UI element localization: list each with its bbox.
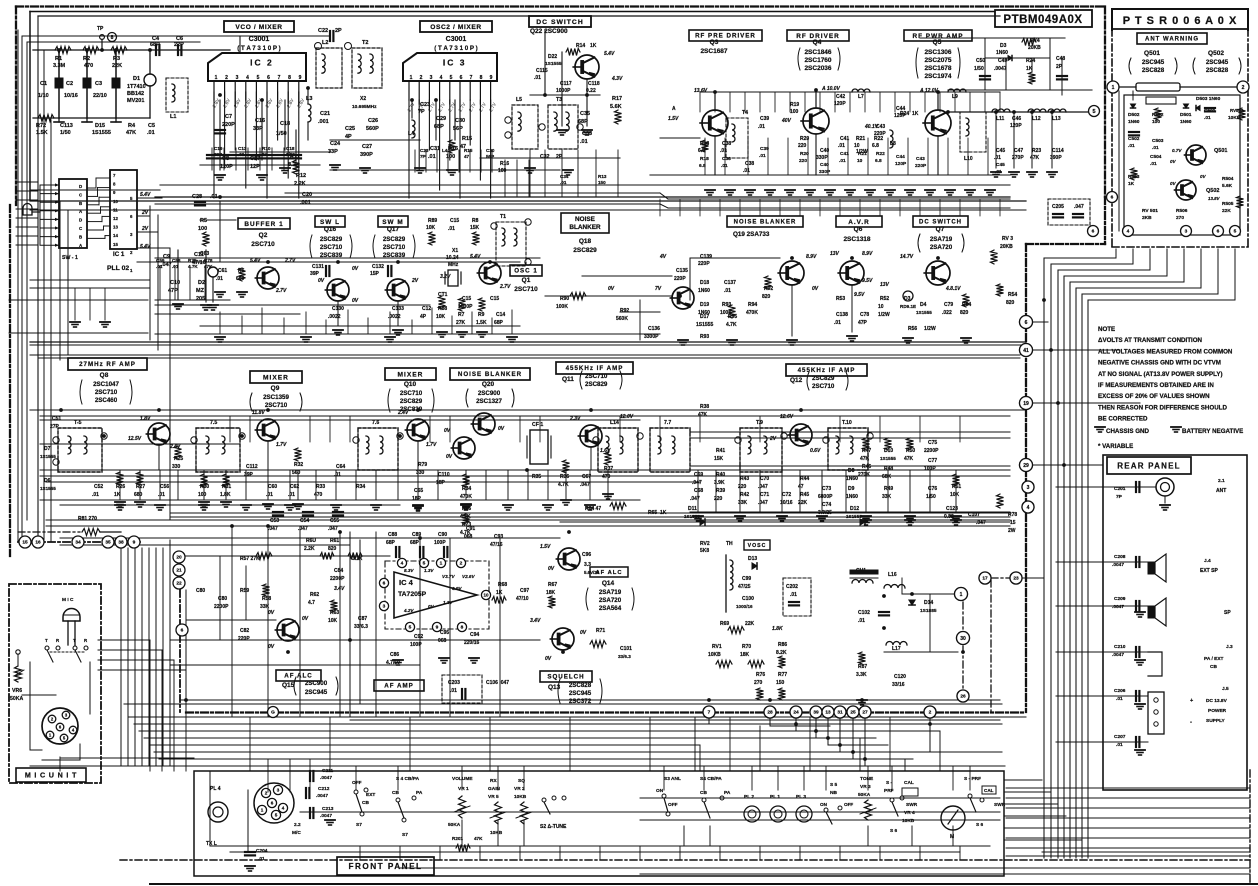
svg-text:C51: C51: [52, 416, 61, 422]
svg-text:2SC1306: 2SC1306: [924, 49, 951, 56]
svg-text:ON: ON: [656, 788, 664, 794]
svg-text:C3001: C3001: [446, 36, 467, 43]
svg-text:0V: 0V: [812, 286, 819, 292]
svg-text:5: 5: [275, 813, 278, 818]
svg-text:0V: 0V: [318, 278, 325, 284]
svg-text:C31: C31: [430, 146, 440, 152]
svg-text:2.7V: 2.7V: [284, 258, 296, 264]
svg-text:0V: 0V: [352, 266, 359, 272]
svg-text:1K: 1K: [590, 43, 597, 49]
svg-text:RV1: RV1: [712, 644, 722, 650]
svg-text:1N60: 1N60: [698, 288, 710, 294]
svg-text:C135: C135: [676, 268, 688, 274]
svg-text:5.4V: 5.4V: [604, 51, 615, 57]
svg-text:0V: 0V: [1170, 159, 1177, 164]
svg-text:T1: T1: [500, 214, 506, 220]
svg-text:C22: C22: [318, 28, 328, 34]
svg-text:.01: .01: [534, 75, 541, 81]
svg-text:C44: C44: [896, 154, 905, 160]
svg-text:R10: R10: [262, 146, 271, 151]
svg-text:1.5K: 1.5K: [476, 320, 487, 326]
svg-text:2V: 2V: [141, 226, 149, 232]
svg-text:C208: C208: [1114, 554, 1126, 560]
svg-text:2SA719: 2SA719: [599, 589, 622, 596]
svg-text:R43: R43: [740, 476, 749, 482]
svg-text:1T7410: 1T7410: [127, 84, 146, 90]
svg-text:CAL: CAL: [984, 788, 994, 793]
svg-text:C502: C502: [1128, 136, 1140, 142]
svg-text:T.10: T.10: [842, 420, 852, 426]
svg-text:4.2V: 4.2V: [403, 608, 414, 613]
svg-text:1.5V: 1.5V: [668, 116, 679, 122]
svg-text:2SC460: 2SC460: [95, 397, 118, 404]
svg-text:18K: 18K: [546, 590, 556, 596]
svg-text:2SC1687: 2SC1687: [700, 48, 727, 55]
svg-text:R33: R33: [316, 484, 325, 490]
svg-text:NEGATIVE CHASSIS GND WITH DC V: NEGATIVE CHASSIS GND WITH DC VTVM: [1098, 360, 1221, 367]
svg-text:560: 560: [292, 470, 301, 476]
svg-text:R32: R32: [294, 462, 303, 468]
svg-text:.01: .01: [450, 688, 457, 694]
svg-text:MIXER: MIXER: [263, 374, 289, 381]
svg-text:.01: .01: [1204, 115, 1211, 121]
svg-text:9: 9: [133, 540, 136, 546]
svg-text:R14: R14: [576, 43, 585, 49]
svg-text:14: 14: [113, 233, 118, 238]
svg-text:2: 2: [929, 710, 932, 716]
svg-text:270: 270: [1176, 215, 1184, 221]
svg-text:VR 3: VR 3: [860, 784, 871, 790]
svg-text:C75: C75: [928, 440, 937, 446]
svg-text:10.695MHz: 10.695MHz: [352, 104, 377, 110]
svg-text:NB: NB: [830, 790, 837, 796]
svg-text:R94: R94: [748, 302, 757, 308]
svg-text:GAIN: GAIN: [488, 786, 501, 792]
svg-text:4.7K: 4.7K: [558, 482, 569, 488]
svg-text:27: 27: [862, 710, 868, 716]
svg-text:3: 3: [236, 75, 239, 81]
svg-text:220P: 220P: [874, 131, 886, 137]
svg-text:C72: C72: [782, 492, 791, 498]
svg-text:C27: C27: [362, 144, 372, 150]
svg-text:22K: 22K: [745, 621, 755, 627]
svg-text:4V: 4V: [659, 254, 667, 260]
svg-text:C101: C101: [620, 646, 632, 652]
svg-text:4.7K: 4.7K: [460, 530, 471, 536]
svg-text:1.7V: 1.7V: [426, 442, 437, 448]
svg-text:6: 6: [383, 581, 386, 587]
svg-text:9: 9: [436, 625, 439, 631]
svg-text:R69: R69: [720, 621, 729, 627]
svg-text:220P: 220P: [238, 636, 250, 642]
svg-text:TH: TH: [726, 541, 733, 547]
svg-text:R65: R65: [648, 510, 657, 516]
svg-text:OFF: OFF: [668, 802, 678, 808]
svg-text:R92: R92: [620, 308, 629, 314]
svg-text:1/2W: 1/2W: [924, 326, 936, 332]
svg-text:56P: 56P: [486, 154, 494, 159]
svg-text:C102: C102: [858, 610, 870, 616]
svg-text:680: 680: [134, 492, 143, 498]
svg-text:270K: 270K: [858, 472, 870, 478]
svg-text:D12: D12: [850, 506, 859, 512]
svg-text:C503: C503: [1152, 138, 1164, 144]
svg-text:.01: .01: [839, 158, 846, 164]
svg-text:5.4V: 5.4V: [250, 258, 261, 264]
svg-text:Q20: Q20: [482, 381, 495, 388]
svg-text:2P: 2P: [335, 28, 342, 34]
svg-text:8: 8: [461, 625, 464, 631]
svg-text:3: 3: [277, 788, 280, 793]
svg-text:C43: C43: [916, 156, 925, 162]
svg-text:4.7: 4.7: [308, 600, 315, 606]
svg-text:22K: 22K: [798, 500, 808, 506]
svg-text:THEN REASON FOR DIFFERENCE SHO: THEN REASON FOR DIFFERENCE SHOULD: [1098, 404, 1227, 411]
svg-text:D14: D14: [924, 600, 933, 606]
svg-text:2SC828: 2SC828: [1142, 67, 1165, 74]
svg-text:470K: 470K: [746, 310, 758, 316]
svg-text:C41: C41: [840, 151, 849, 157]
svg-text:220P: 220P: [222, 122, 235, 128]
svg-text:.047: .047: [758, 484, 768, 490]
svg-text:RX: RX: [490, 778, 497, 784]
svg-text:100: 100: [790, 109, 799, 115]
svg-text:Q12: Q12: [790, 377, 803, 384]
svg-text:10K: 10K: [950, 492, 960, 498]
svg-text:R12: R12: [296, 173, 306, 179]
svg-text:A 10.0V: A 10.0V: [821, 86, 841, 92]
svg-text:100: 100: [446, 154, 455, 160]
svg-text:10KB: 10KB: [514, 794, 527, 800]
svg-text:330: 330: [416, 470, 425, 476]
svg-text:2: 2: [420, 75, 423, 81]
svg-text:15K: 15K: [470, 225, 480, 231]
svg-text:.0022: .0022: [328, 314, 341, 320]
svg-text:.01: .01: [995, 169, 1002, 175]
svg-text:R5: R5: [200, 218, 207, 224]
svg-text:REAR PANEL: REAR PANEL: [1117, 461, 1180, 470]
svg-text:220: 220: [799, 158, 807, 164]
svg-text:C136: C136: [648, 326, 660, 332]
svg-text:16: 16: [35, 540, 41, 546]
svg-text:S4 CB/PA: S4 CB/PA: [700, 776, 722, 782]
svg-text:.01: .01: [288, 492, 295, 498]
svg-text:1N60: 1N60: [1128, 119, 1140, 125]
svg-text:BE CORRECTED: BE CORRECTED: [1098, 416, 1148, 423]
svg-text:11.8V: 11.8V: [252, 410, 265, 416]
svg-text:1: 1: [440, 561, 443, 567]
svg-text:C86: C86: [390, 652, 399, 658]
svg-text:D11: D11: [688, 506, 697, 512]
svg-text:PA / EXT: PA / EXT: [1204, 656, 1224, 662]
svg-text:.01: .01: [266, 492, 273, 498]
svg-text:.01: .01: [448, 226, 455, 232]
svg-text:5: 5: [1092, 109, 1095, 115]
svg-text:4: 4: [401, 561, 404, 567]
svg-text:Q2: Q2: [259, 232, 268, 239]
svg-text:7: 7: [278, 75, 281, 81]
svg-text:1S1555: 1S1555: [880, 456, 896, 461]
svg-text:2: 2: [460, 561, 463, 567]
svg-text:0V: 0V: [268, 644, 275, 650]
svg-text:34: 34: [75, 540, 81, 546]
svg-text:.001: .001: [318, 119, 329, 125]
svg-text:12: 12: [113, 216, 118, 221]
svg-text:VR 4: VR 4: [904, 810, 915, 816]
svg-text:470: 470: [84, 63, 93, 69]
svg-text:2SC710: 2SC710: [265, 402, 288, 409]
svg-text:3.3M: 3.3M: [53, 63, 66, 69]
svg-text:C56: C56: [160, 484, 169, 490]
svg-text:Q16: Q16: [324, 226, 337, 233]
svg-text:CAL: CAL: [904, 780, 914, 786]
svg-text:R68: R68: [498, 582, 507, 588]
svg-text:D2: D2: [198, 280, 205, 286]
svg-text:T-5: T-5: [74, 420, 82, 426]
svg-text:1S1555: 1S1555: [916, 310, 932, 315]
svg-text:RD9.1E: RD9.1E: [900, 304, 916, 309]
svg-text:2SC1318: 2SC1318: [843, 236, 870, 243]
svg-text:J.4: J.4: [1204, 558, 1211, 564]
svg-text:T: T: [73, 638, 76, 643]
svg-text:2SC829: 2SC829: [320, 236, 343, 243]
svg-text:20KB: 20KB: [1000, 244, 1013, 250]
svg-text:6800P: 6800P: [818, 494, 833, 500]
svg-text:820: 820: [1006, 300, 1015, 306]
svg-text:C73: C73: [822, 486, 831, 492]
svg-text:2.1: 2.1: [1218, 478, 1225, 484]
svg-text:PL 1: PL 1: [770, 794, 780, 800]
svg-text:5.4V: 5.4V: [470, 254, 481, 260]
svg-text:100: 100: [1152, 119, 1160, 125]
svg-text:B: B: [79, 234, 82, 239]
svg-text:C100: C100: [742, 596, 754, 602]
svg-text:Q1: Q1: [522, 277, 531, 284]
svg-text:C113: C113: [60, 123, 73, 129]
svg-text:C88: C88: [388, 532, 397, 538]
svg-text:SWR: SWR: [906, 802, 918, 808]
svg-text:30: 30: [960, 636, 966, 642]
svg-text:270: 270: [754, 680, 763, 686]
svg-text:OFF: OFF: [844, 802, 853, 807]
svg-text:2SC710: 2SC710: [320, 244, 343, 251]
svg-text:1.8V: 1.8V: [140, 416, 151, 422]
svg-text:C40: C40: [820, 162, 829, 168]
svg-text:24: 24: [793, 710, 799, 716]
svg-text:220/16: 220/16: [464, 640, 480, 646]
svg-text:33/6.3: 33/6.3: [354, 624, 368, 630]
svg-text:C77: C77: [928, 458, 937, 464]
svg-text:Q9: Q9: [271, 385, 280, 392]
svg-text:R58: R58: [262, 596, 271, 602]
svg-text:M I C: M I C: [62, 597, 74, 603]
svg-text:V2.6V: V2.6V: [462, 574, 475, 579]
svg-text:C23: C23: [420, 148, 429, 153]
svg-text:17: 17: [982, 576, 988, 582]
svg-text:390P: 390P: [360, 152, 373, 158]
svg-text:C58: C58: [172, 258, 181, 263]
svg-text:R23: R23: [1032, 148, 1041, 154]
svg-text:2SC1846: 2SC1846: [804, 49, 831, 56]
svg-text:C48: C48: [1056, 56, 1065, 62]
svg-text:R36: R36: [560, 474, 569, 480]
svg-text:23: 23: [1013, 576, 1019, 582]
svg-text:CB: CB: [392, 790, 399, 796]
svg-text:OSC2 / MIXER: OSC2 / MIXER: [430, 24, 482, 31]
svg-text:R56: R56: [908, 326, 917, 332]
svg-text:C29: C29: [436, 116, 446, 122]
svg-text:0V: 0V: [580, 630, 587, 636]
svg-text:L14: L14: [610, 420, 619, 426]
svg-text:1.5V: 1.5V: [540, 544, 551, 550]
svg-text:2SC828: 2SC828: [1206, 67, 1229, 74]
svg-text:2SC900: 2SC900: [478, 390, 501, 397]
svg-text:AF AMP: AF AMP: [384, 683, 414, 690]
svg-text:1: 1: [410, 75, 413, 81]
svg-text:1/2W: 1/2W: [878, 312, 890, 318]
svg-text:1K: 1K: [262, 152, 269, 157]
svg-text:CF 1: CF 1: [532, 422, 543, 428]
svg-text:.01: .01: [743, 168, 750, 174]
svg-text:3.4V: 3.4V: [530, 618, 541, 624]
svg-text:18P: 18P: [436, 480, 446, 486]
svg-text:1.8K: 1.8K: [220, 492, 231, 498]
svg-text:RV 501: RV 501: [1142, 208, 1158, 214]
svg-text:14.7V: 14.7V: [900, 254, 914, 260]
svg-text:S 4 CB/PA: S 4 CB/PA: [396, 776, 420, 782]
svg-text:1/10: 1/10: [38, 93, 49, 99]
svg-text:SWR: SWR: [994, 802, 1006, 808]
svg-text:7V: 7V: [655, 286, 662, 292]
svg-text:68P: 68P: [150, 42, 160, 48]
svg-text:R35: R35: [532, 474, 541, 480]
svg-text:2SC828: 2SC828: [569, 682, 592, 689]
svg-text:15: 15: [22, 540, 28, 546]
svg-text:22/10: 22/10: [93, 93, 107, 99]
svg-text:6: 6: [1217, 229, 1220, 235]
svg-text:C82: C82: [240, 628, 249, 634]
svg-text:R70: R70: [742, 644, 751, 650]
svg-text:.047: .047: [580, 482, 590, 488]
svg-text:R44: R44: [800, 476, 809, 482]
svg-text:7.7: 7.7: [664, 420, 671, 426]
svg-text:12.0V: 12.0V: [620, 414, 634, 420]
svg-text:2SC829: 2SC829: [383, 236, 406, 243]
svg-text:1N60: 1N60: [1180, 119, 1192, 125]
svg-text:.0047: .0047: [320, 775, 332, 781]
svg-text:C90: C90: [438, 532, 447, 538]
svg-text:.01: .01: [560, 180, 567, 185]
svg-text:R87: R87: [858, 664, 867, 670]
svg-text:.047: .047: [1074, 204, 1084, 210]
svg-text:R40: R40: [716, 472, 725, 478]
svg-text:TONE: TONE: [860, 776, 874, 782]
svg-text:C112: C112: [246, 464, 258, 470]
svg-text:BATTERY NEGATIVE: BATTERY NEGATIVE: [1182, 428, 1243, 435]
svg-text:C114: C114: [1052, 148, 1064, 154]
svg-text:100P: 100P: [434, 540, 446, 546]
svg-text:5.6V/25: 5.6V/25: [584, 570, 600, 575]
svg-text:Q502: Q502: [1208, 50, 1224, 57]
svg-text:1: 1: [960, 592, 963, 598]
svg-text:C78: C78: [860, 312, 869, 318]
svg-text:10KB: 10KB: [490, 830, 503, 836]
svg-text:C30: C30: [486, 148, 495, 153]
svg-text:1N60: 1N60: [846, 494, 858, 500]
svg-text:C60: C60: [268, 484, 277, 490]
svg-text:L12: L12: [1032, 116, 1041, 122]
svg-text:2SC829: 2SC829: [573, 247, 597, 254]
svg-text:Q14: Q14: [602, 580, 615, 587]
svg-text:D9: D9: [848, 486, 855, 492]
svg-text:Q22 2SC900: Q22 2SC900: [530, 28, 568, 35]
svg-text:39P: 39P: [244, 472, 254, 478]
svg-text:1N60: 1N60: [698, 310, 710, 316]
svg-text:0V: 0V: [608, 286, 615, 292]
svg-text:Q4: Q4: [813, 39, 822, 46]
svg-text:120P: 120P: [834, 101, 846, 107]
svg-text:C202: C202: [786, 584, 798, 590]
svg-text:C69: C69: [694, 472, 703, 478]
svg-text:5.4V: 5.4V: [140, 192, 151, 198]
svg-text:27MHz RF AMP: 27MHz RF AMP: [79, 361, 136, 368]
svg-text:AF ALC: AF ALC: [284, 673, 312, 680]
svg-text:6: 6: [1111, 195, 1114, 201]
svg-text:120P: 120P: [894, 113, 906, 119]
svg-text:4.7K: 4.7K: [726, 322, 737, 328]
svg-text:C15: C15: [490, 296, 499, 302]
svg-text:50KA: 50KA: [448, 822, 461, 828]
svg-text:220: 220: [714, 496, 723, 502]
svg-text:C97: C97: [520, 588, 529, 594]
svg-text:.01: .01: [172, 264, 179, 269]
svg-text:.01: .01: [724, 288, 731, 294]
svg-text:8: 8: [288, 75, 291, 81]
svg-text:R6U: R6U: [306, 538, 316, 544]
svg-text:47P: 47P: [858, 320, 868, 326]
svg-text:D1: D1: [133, 76, 140, 82]
svg-text:2200P: 2200P: [214, 604, 229, 610]
svg-text:31: 31: [837, 710, 843, 716]
svg-text:5: 5: [409, 625, 412, 631]
svg-text:.01: .01: [334, 472, 341, 478]
svg-text:0V: 0V: [428, 604, 435, 609]
svg-text:L7: L7: [858, 94, 864, 100]
svg-text:.047: .047: [758, 500, 768, 506]
svg-text:PLL 02: PLL 02: [107, 265, 129, 272]
svg-text:220: 220: [798, 143, 807, 149]
svg-text:13.6V: 13.6V: [694, 88, 708, 94]
svg-text:L4: L4: [442, 148, 448, 153]
svg-text:C139: C139: [700, 254, 712, 260]
svg-text:ANT WARNING: ANT WARNING: [1145, 37, 1199, 43]
svg-text:C14: C14: [496, 312, 505, 318]
svg-text:13V: 13V: [880, 282, 890, 288]
svg-text:D7: D7: [44, 446, 51, 452]
svg-text:8.3V: 8.3V: [404, 568, 414, 573]
svg-text:10: 10: [857, 158, 863, 164]
svg-text:22P: 22P: [174, 42, 184, 48]
svg-text:1/50: 1/50: [286, 152, 295, 157]
svg-text:C54: C54: [300, 518, 309, 524]
svg-text:ON: ON: [820, 802, 828, 807]
svg-text:R37: R37: [604, 466, 613, 472]
svg-text:C42: C42: [836, 94, 845, 100]
svg-text:R39: R39: [716, 488, 725, 494]
svg-text:20KB: 20KB: [1028, 45, 1041, 51]
svg-text:1000/16: 1000/16: [736, 604, 753, 609]
svg-text:R3: R3: [113, 56, 120, 62]
